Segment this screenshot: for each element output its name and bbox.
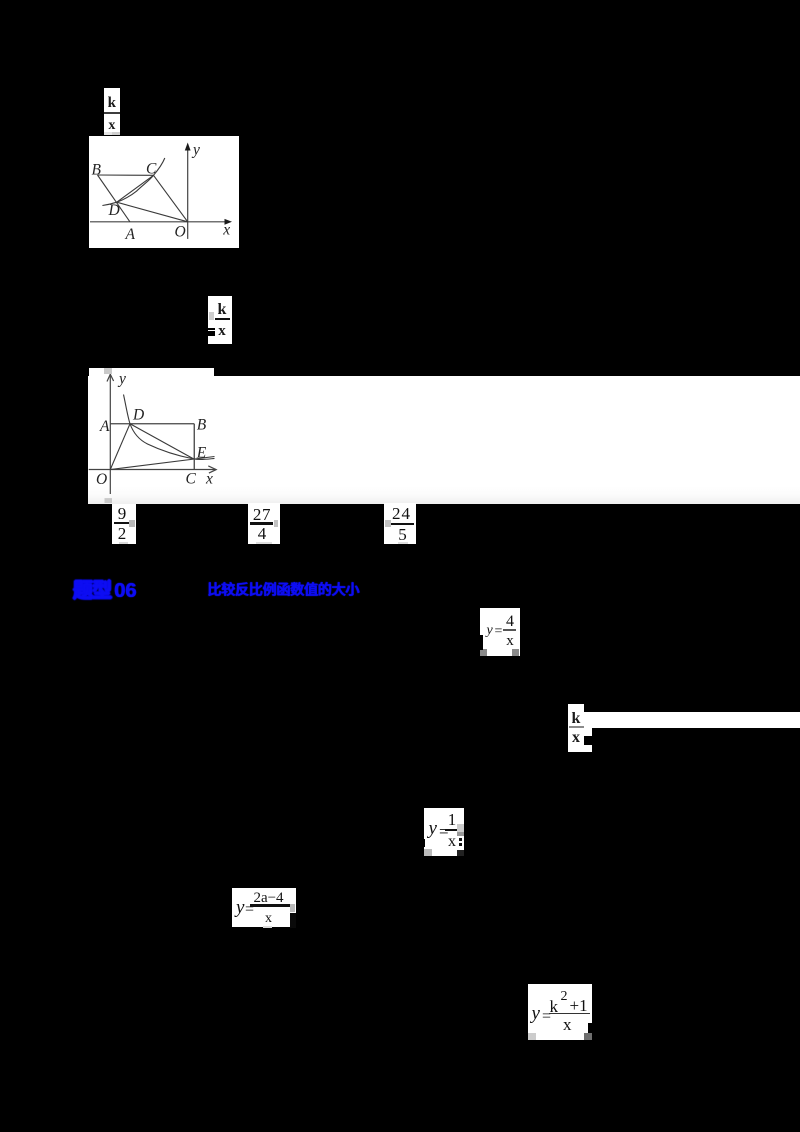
wire B-C [98,174,154,176]
grey handle bottom [105,498,113,503]
svg-text:A: A [99,418,110,435]
hyperbola through D and E [124,395,215,460]
x-axis [90,221,226,223]
y-axis [187,145,189,239]
formula k/x (third) with band [568,704,584,753]
svg-text:y: y [191,142,200,159]
figure 2 top white strip [89,368,215,377]
wire D-O [117,202,188,222]
formula y=(2a-4)/x [232,888,297,928]
svg-text:C: C [186,470,197,487]
x-axis [89,469,216,471]
x-axis open arrowhead [208,466,216,473]
formula y=1/x [424,808,464,857]
wire D-E [130,424,194,459]
svg-text:y: y [117,370,126,387]
rectangle edge A-B [110,423,194,425]
hyperbola curve through D and C [102,158,164,206]
fraction 27/4 [248,503,280,544]
y-axis open arrowhead [107,374,114,381]
wire C-O [154,175,188,222]
wire O-E extended [110,457,214,470]
figure 2 drawing [88,365,230,503]
svg-text:E: E [196,444,207,461]
svg-text:x: x [222,222,230,239]
x-axis arrowhead [225,219,233,225]
wire O-D [110,424,130,470]
svg-text:B: B [92,161,102,178]
big white band [88,376,800,504]
formula y=4/x [480,608,520,656]
svg-text:D: D [108,202,120,219]
svg-text:A: A [125,226,136,243]
formula image =k/x (second) [208,296,232,344]
y-axis [109,374,111,494]
figure 1 drawing [89,136,239,248]
svg-text:C: C [146,160,157,177]
formula y=(k^2+1)/x [528,984,593,1040]
figure 1 box [89,136,239,248]
formula image k/x (top) [104,88,120,136]
grey handle top [104,368,112,374]
wire D-C [117,175,154,202]
blue heading [73,581,359,601]
wire B-A [98,175,130,222]
svg-text:O: O [96,471,107,488]
fraction 24/5 [384,503,416,544]
svg-text:O: O [175,224,186,241]
black notch top-right of figure 2 strip [214,365,236,376]
y-axis arrowhead [185,143,191,151]
svg-text:D: D [132,407,144,424]
fraction 9/2 [112,504,136,545]
svg-text:x: x [205,471,213,488]
svg-text:B: B [197,416,207,433]
rectangle edge B-C [193,424,195,470]
